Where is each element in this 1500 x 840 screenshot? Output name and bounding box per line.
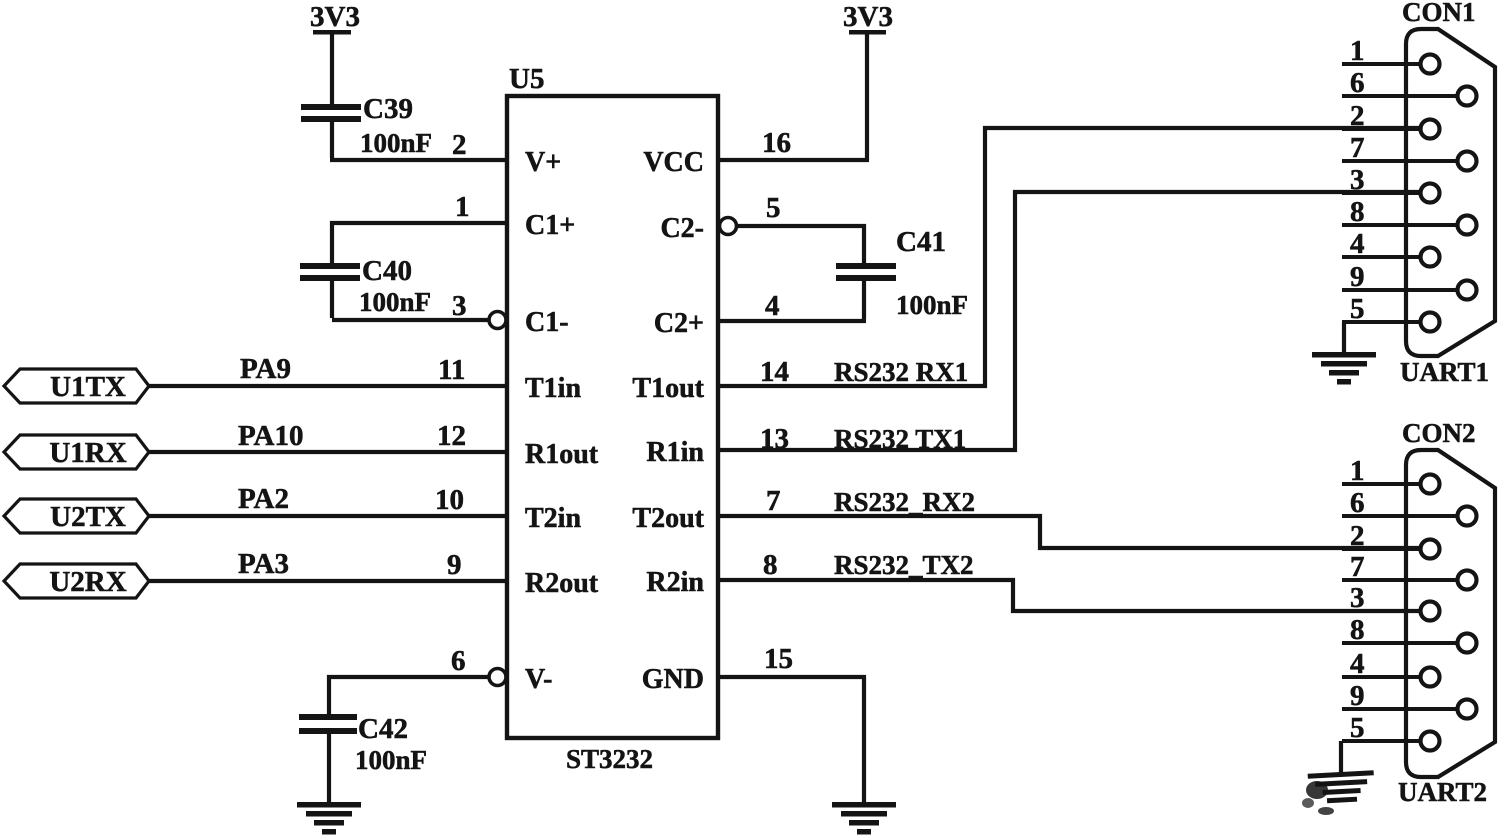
svg-text:C39: C39 [363, 93, 413, 125]
capacitor C42 [299, 714, 357, 720]
svg-text:R2out: R2out [525, 568, 599, 599]
wire C39 to U5 pin 2 (V+) [330, 122, 507, 160]
wire U5 pin 6 (V-) to C42 [329, 677, 489, 716]
svg-text:PA9: PA9 [240, 353, 291, 385]
CON2 pin 7 hole [1458, 571, 1477, 590]
svg-text:C1+: C1+ [525, 210, 575, 241]
svg-text:9: 9 [1350, 680, 1365, 712]
wire C42 to ground [327, 734, 331, 805]
svg-text:2: 2 [452, 129, 467, 161]
wire U2TX (net PA2) to U5 pin 10 [149, 514, 507, 518]
svg-text:8: 8 [1350, 614, 1365, 646]
svg-text:14: 14 [760, 356, 789, 388]
svg-text:VCC: VCC [643, 147, 704, 178]
svg-text:3: 3 [1350, 582, 1365, 614]
svg-text:RS232 RX1: RS232 RX1 [834, 357, 968, 387]
svg-text:2: 2 [1350, 520, 1365, 552]
connector CON2 body [1406, 450, 1495, 777]
svg-text:9: 9 [1350, 261, 1365, 293]
wire 3V3 to U5 pin 16 (VCC) [719, 33, 869, 160]
wire U1TX (net PA9) to U5 pin 11 [149, 384, 507, 388]
svg-text:6: 6 [451, 645, 466, 677]
CON2 pin stub wires [1342, 484, 1467, 741]
svg-text:6: 6 [1350, 487, 1365, 519]
svg-text:7: 7 [1350, 551, 1365, 583]
svg-text:2: 2 [1350, 100, 1365, 132]
wire CON2 pin 5 to ground [1339, 741, 1343, 774]
svg-text:7: 7 [1350, 132, 1365, 164]
svg-text:100nF: 100nF [359, 287, 431, 317]
svg-text:4: 4 [765, 290, 780, 322]
CON1 pin 8 hole [1458, 216, 1477, 235]
svg-text:T1out: T1out [632, 373, 704, 404]
wire C41 to U5 pin 4 (C2+) [719, 281, 866, 321]
svg-text:T1in: T1in [525, 373, 581, 404]
CON1 pin 9 hole [1458, 281, 1477, 300]
wire U1RX (net PA10) to U5 pin 12 [149, 450, 507, 454]
svg-text:8: 8 [763, 549, 778, 581]
svg-text:C42: C42 [358, 713, 408, 745]
svg-text:12: 12 [437, 420, 466, 452]
CON2 pin 9 hole [1458, 700, 1477, 719]
bubble U5 pin 3 C1- [489, 312, 506, 329]
svg-text:100nF: 100nF [896, 290, 968, 320]
svg-text:U1RX: U1RX [49, 437, 126, 469]
svg-text:U1TX: U1TX [50, 371, 126, 403]
svg-text:3V3: 3V3 [310, 1, 360, 33]
svg-text:C2-: C2- [660, 213, 704, 244]
svg-text:C41: C41 [896, 226, 946, 258]
capacitor C39 [301, 104, 361, 110]
svg-text:C1-: C1- [525, 307, 569, 338]
svg-text:R1in: R1in [646, 437, 704, 468]
wire U2RX (net PA3) to U5 pin 9 [149, 579, 507, 583]
svg-text:CON2: CON2 [1402, 418, 1476, 448]
svg-text:3V3: 3V3 [843, 1, 893, 33]
wire U5 pin 8 (R2in) net RS232_TX2 to CON2 pin 3 [719, 580, 1419, 611]
wire U5 pin 5 (C2-) to C41 [737, 226, 864, 264]
wire CON1 pin 5 to ground [1342, 322, 1346, 354]
svg-text:T2out: T2out [632, 503, 704, 534]
CON1 pin 1 hole [1421, 55, 1440, 74]
svg-text:PA3: PA3 [238, 548, 289, 580]
ground (U5 GND) [832, 802, 896, 808]
svg-text:13: 13 [760, 423, 789, 455]
port flag U2RX [4, 564, 149, 598]
svg-text:1: 1 [1350, 455, 1365, 487]
svg-text:C40: C40 [362, 255, 412, 287]
svg-text:1: 1 [1350, 35, 1365, 67]
svg-text:4: 4 [1350, 648, 1365, 680]
capacitor C40 [300, 263, 360, 269]
wire U5 pin 14 (T1out) net RS232 RX1 to CON1 pin 2 [719, 128, 1422, 386]
svg-text:T2in: T2in [525, 503, 581, 534]
svg-text:ST3232: ST3232 [566, 744, 653, 774]
wire U5 pin 15 (GND) to ground [719, 677, 864, 805]
svg-text:C2+: C2+ [654, 308, 704, 339]
svg-text:UART1: UART1 [1400, 357, 1489, 387]
svg-text:R2in: R2in [646, 567, 704, 598]
bubble U5 pin 6 V- [489, 669, 506, 686]
svg-text:3: 3 [1350, 164, 1365, 196]
CON1 pin 3 hole [1421, 184, 1440, 203]
svg-text:5: 5 [1350, 712, 1365, 744]
svg-text:RS232_TX2: RS232_TX2 [834, 550, 974, 580]
svg-text:9: 9 [447, 549, 462, 581]
svg-text:3: 3 [452, 290, 467, 322]
svg-text:PA10: PA10 [238, 420, 304, 452]
CON2 pin 3 hole [1421, 602, 1440, 621]
CON2 pin 2 hole [1421, 540, 1440, 559]
CON1 pin 2 hole [1421, 120, 1440, 139]
svg-text:10: 10 [435, 484, 464, 516]
CON2 pin 4 hole [1421, 668, 1440, 687]
wire 3V3 to C39 [330, 33, 334, 106]
connector CON1 body [1406, 29, 1495, 356]
bubble U5 pin 5 C2- [720, 218, 737, 235]
svg-text:V-: V- [525, 664, 552, 695]
svg-text:V+: V+ [525, 147, 561, 178]
svg-text:UART2: UART2 [1398, 777, 1487, 807]
port flag U2TX [4, 499, 149, 533]
svg-text:100nF: 100nF [355, 745, 427, 775]
ground (C42) [297, 802, 361, 808]
CON2 pin 6 hole [1458, 507, 1477, 526]
CON1 pin 7 hole [1458, 152, 1477, 171]
svg-text:R1out: R1out [525, 439, 599, 470]
svg-text:4: 4 [1350, 228, 1365, 260]
CON1 pin 5 hole [1421, 313, 1440, 332]
svg-text:RS232 TX1: RS232 TX1 [834, 424, 966, 454]
CON2 pin 1 hole [1421, 475, 1440, 494]
svg-text:GND: GND [642, 664, 704, 695]
svg-text:6: 6 [1350, 67, 1365, 99]
CON2 pin 5 hole [1421, 732, 1440, 751]
svg-text:U2TX: U2TX [50, 501, 126, 533]
wire U5 pin 1 (C1+) to C40 [332, 223, 507, 265]
svg-text:RS232_RX2: RS232_RX2 [834, 487, 975, 517]
port flag U1RX [4, 435, 149, 469]
svg-text:PA2: PA2 [238, 483, 289, 515]
svg-text:5: 5 [766, 192, 781, 224]
svg-text:5: 5 [1350, 293, 1365, 325]
CON2 pin 8 hole [1458, 634, 1477, 653]
CON1 pin stub wires [1342, 64, 1467, 322]
capacitor C41 [836, 263, 896, 269]
svg-text:7: 7 [766, 485, 781, 517]
svg-text:U5: U5 [509, 63, 544, 95]
wire C40 to U5 pin 3 (C1-) [332, 281, 489, 320]
CON1 pin 4 hole [1421, 248, 1440, 267]
op IC U5 ST3232 body [507, 96, 718, 738]
svg-text:8: 8 [1350, 196, 1365, 228]
svg-text:1: 1 [455, 191, 470, 223]
svg-text:100nF: 100nF [360, 128, 432, 158]
svg-text:CON1: CON1 [1402, 0, 1476, 27]
svg-text:U2RX: U2RX [49, 566, 126, 598]
wire U5 pin 13 (R1in) net RS232 TX1 to CON1 pin 3 [719, 192, 1422, 450]
port flag U1TX [4, 369, 149, 403]
svg-text:11: 11 [438, 354, 465, 386]
svg-text:15: 15 [764, 643, 793, 675]
svg-text:16: 16 [762, 127, 791, 159]
CON1 pin 6 hole [1458, 87, 1477, 106]
ground (CON2 pin 5) [1308, 770, 1376, 804]
wire U5 pin 7 (T2out) net RS232_RX2 to CON2 pin 2 [719, 516, 1419, 548]
ground (CON1 pin 5) [1312, 352, 1376, 358]
